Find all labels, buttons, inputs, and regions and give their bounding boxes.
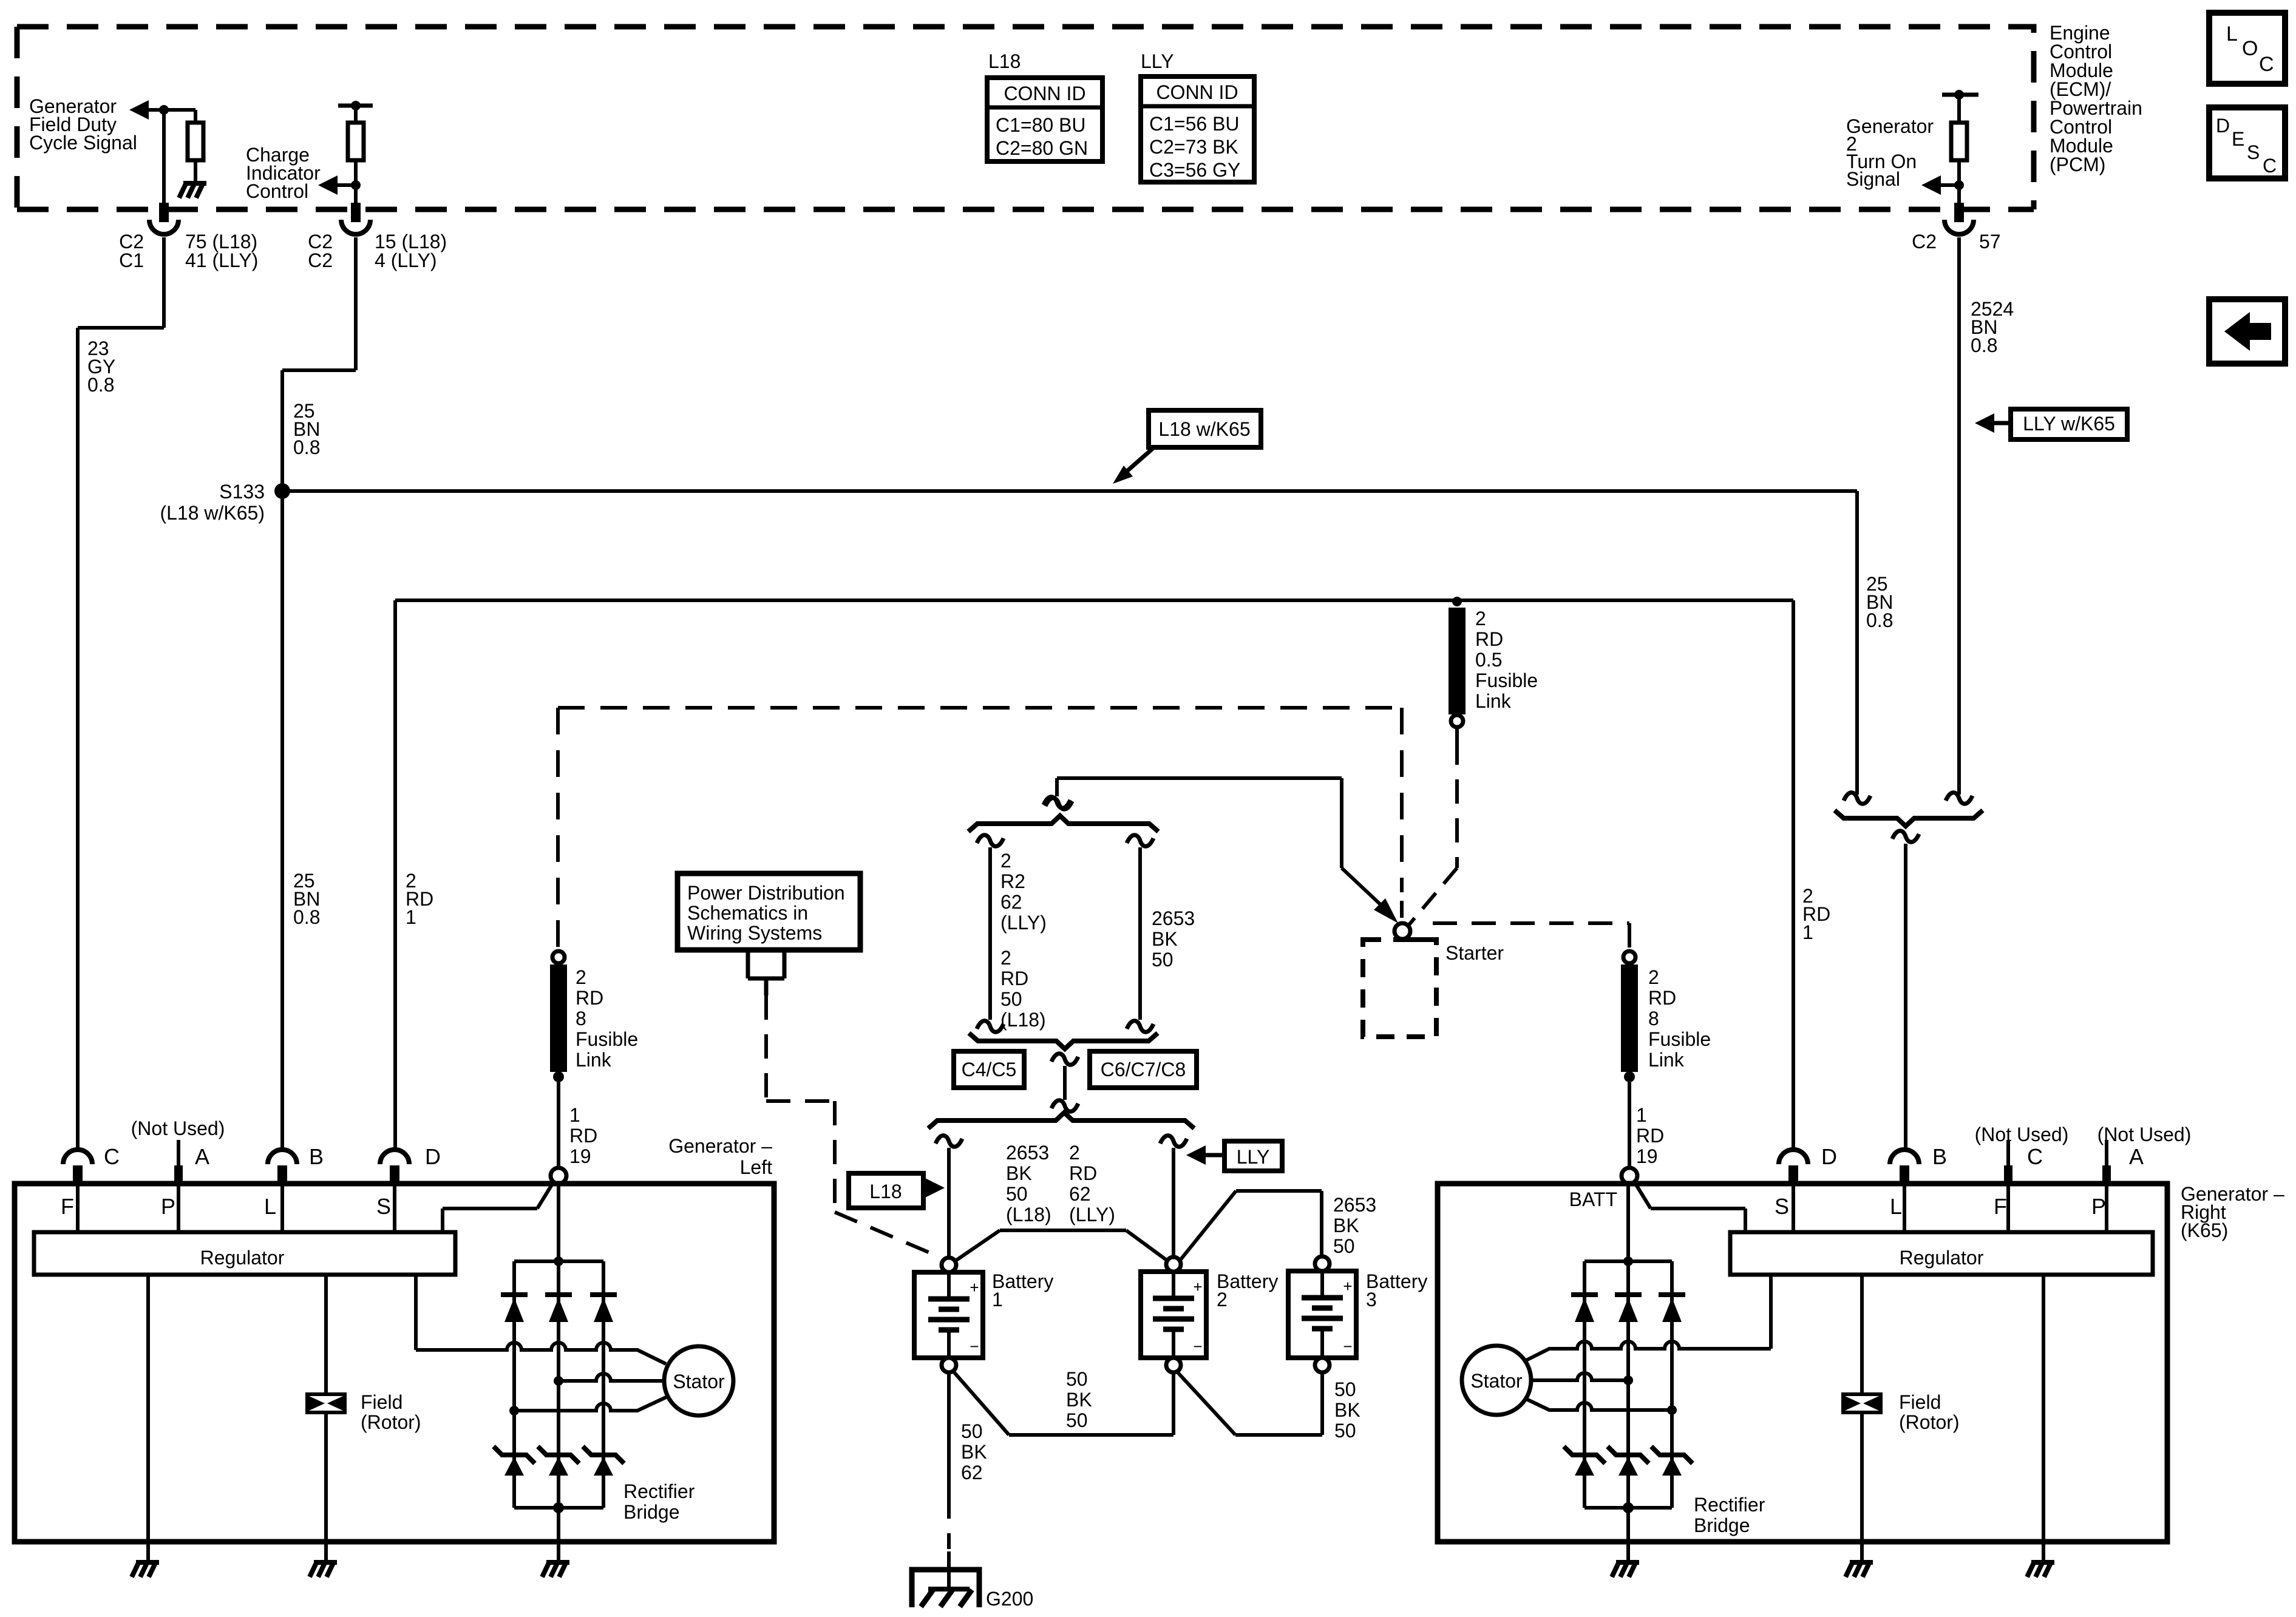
svg-text:2: 2 [576, 966, 586, 988]
svg-text:Bridge: Bridge [623, 1501, 680, 1523]
svg-text:L18 w/K65: L18 w/K65 [1158, 418, 1250, 440]
svg-text:BK: BK [1333, 1215, 1359, 1236]
svg-text:2653: 2653 [1006, 1142, 1049, 1164]
svg-text:C3=56 GY: C3=56 GY [1149, 159, 1240, 181]
svg-text:50: 50 [1006, 1183, 1028, 1205]
svg-text:Power Distribution: Power Distribution [687, 882, 845, 904]
svg-text:50: 50 [1334, 1378, 1356, 1400]
svg-text:50: 50 [1066, 1409, 1088, 1431]
svg-text:Starter: Starter [1445, 942, 1504, 964]
svg-text:F: F [61, 1194, 74, 1219]
svg-text:B: B [309, 1144, 324, 1169]
svg-text:Cycle Signal: Cycle Signal [29, 132, 137, 154]
svg-text:BK: BK [1066, 1389, 1092, 1411]
svg-text:50: 50 [1334, 1420, 1356, 1442]
svg-text:C2=73 BK: C2=73 BK [1149, 136, 1238, 158]
svg-text:R2: R2 [1000, 870, 1025, 892]
svg-text:C1=80 BU: C1=80 BU [996, 114, 1086, 136]
svg-text:19: 19 [569, 1145, 591, 1167]
svg-text:C: C [2027, 1144, 2043, 1169]
svg-text:62: 62 [1000, 891, 1022, 913]
svg-text:Fusible: Fusible [576, 1028, 638, 1050]
svg-text:D: D [1821, 1144, 1837, 1169]
svg-text:RD: RD [1000, 968, 1028, 989]
svg-text:C: C [2259, 53, 2274, 76]
svg-text:L: L [1890, 1194, 1902, 1219]
svg-text:(L18): (L18) [1006, 1204, 1051, 1225]
svg-text:A: A [2129, 1144, 2144, 1169]
svg-text:D: D [2216, 115, 2230, 137]
svg-text:0.5: 0.5 [1475, 649, 1502, 671]
svg-text:B: B [1932, 1144, 1947, 1169]
svg-text:50: 50 [1333, 1235, 1355, 1257]
svg-text:C4/C5: C4/C5 [962, 1059, 1017, 1080]
svg-text:57: 57 [1979, 231, 2001, 253]
svg-text:−: − [970, 1337, 979, 1355]
svg-text:Regulator: Regulator [1900, 1247, 1984, 1269]
svg-text:Schematics in: Schematics in [687, 902, 808, 924]
svg-text:−: − [1193, 1337, 1202, 1355]
svg-text:Generator: Generator [1846, 115, 1934, 137]
svg-text:(Not Used): (Not Used) [1975, 1124, 2069, 1145]
svg-text:2: 2 [1000, 850, 1011, 872]
svg-text:2: 2 [1648, 966, 1659, 988]
svg-text:4 (LLY): 4 (LLY) [375, 249, 437, 271]
svg-text:BATT: BATT [1569, 1188, 1617, 1210]
svg-text:CONN ID: CONN ID [1156, 81, 1238, 103]
svg-text:(K65): (K65) [2181, 1219, 2228, 1241]
svg-text:+: + [970, 1278, 979, 1297]
svg-text:2: 2 [1069, 1142, 1080, 1164]
svg-text:41 (LLY): 41 (LLY) [185, 249, 258, 271]
svg-text:(LLY): (LLY) [1000, 912, 1047, 934]
svg-text:RD: RD [1475, 628, 1503, 650]
svg-text:62: 62 [961, 1462, 983, 1483]
svg-text:LLY: LLY [1141, 50, 1174, 72]
svg-text:BK: BK [1006, 1162, 1032, 1184]
svg-text:C2: C2 [1912, 231, 1937, 253]
svg-text:C2: C2 [308, 249, 333, 271]
svg-text:Control: Control [246, 180, 308, 202]
svg-text:LLY: LLY [1237, 1146, 1270, 1168]
svg-text:(Not Used): (Not Used) [131, 1117, 225, 1139]
svg-text:BK: BK [961, 1441, 987, 1463]
svg-text:RD: RD [1648, 987, 1676, 1009]
svg-text:BK: BK [1334, 1399, 1360, 1421]
svg-text:Left: Left [740, 1156, 772, 1178]
svg-text:L: L [2226, 22, 2238, 46]
svg-text:2653: 2653 [1152, 907, 1195, 929]
svg-text:Bridge: Bridge [1694, 1514, 1750, 1536]
svg-text:(PCM): (PCM) [2050, 154, 2105, 175]
svg-text:Stator: Stator [673, 1371, 725, 1392]
svg-text:C1=56 BU: C1=56 BU [1149, 113, 1240, 135]
svg-text:(Rotor): (Rotor) [361, 1411, 421, 1433]
svg-text:50: 50 [1066, 1368, 1088, 1390]
svg-text:Link: Link [576, 1049, 612, 1071]
svg-text:(Rotor): (Rotor) [1899, 1411, 1960, 1433]
svg-text:1: 1 [992, 1289, 1003, 1310]
svg-text:0.8: 0.8 [293, 436, 320, 458]
svg-text:S: S [376, 1194, 391, 1219]
svg-text:E: E [2232, 128, 2244, 150]
svg-text:C: C [104, 1144, 120, 1169]
svg-text:62: 62 [1069, 1183, 1091, 1205]
svg-text:RD: RD [1069, 1162, 1097, 1184]
svg-text:Rectifier: Rectifier [623, 1480, 695, 1502]
svg-text:LLY w/K65: LLY w/K65 [2023, 413, 2115, 435]
svg-text:L18: L18 [869, 1181, 902, 1202]
svg-text:+: + [1193, 1278, 1202, 1296]
svg-text:2: 2 [1000, 947, 1011, 969]
svg-text:50: 50 [961, 1420, 983, 1442]
svg-text:1: 1 [1636, 1104, 1647, 1126]
svg-text:L18: L18 [988, 50, 1021, 72]
svg-text:G200: G200 [986, 1588, 1033, 1610]
svg-text:Field: Field [361, 1391, 402, 1413]
svg-text:2: 2 [1475, 608, 1486, 629]
svg-text:Generator –: Generator – [668, 1135, 772, 1157]
svg-text:+: + [1343, 1277, 1352, 1295]
svg-text:Wiring Systems: Wiring Systems [687, 922, 822, 944]
svg-text:2: 2 [1217, 1289, 1228, 1310]
svg-text:Regulator: Regulator [200, 1247, 285, 1269]
svg-text:(L18): (L18) [1000, 1009, 1046, 1031]
svg-text:(Not Used): (Not Used) [2097, 1124, 2192, 1145]
svg-text:D: D [425, 1144, 441, 1169]
svg-text:0.8: 0.8 [1866, 609, 1893, 631]
svg-text:RD: RD [569, 1125, 597, 1147]
svg-text:C: C [2263, 155, 2277, 177]
svg-text:1: 1 [569, 1104, 580, 1126]
svg-text:50: 50 [1152, 949, 1173, 971]
svg-text:RD: RD [576, 987, 603, 1009]
svg-text:Fusible: Fusible [1475, 670, 1538, 691]
svg-text:S133: S133 [219, 481, 265, 503]
svg-text:C1: C1 [119, 249, 144, 271]
svg-text:8: 8 [576, 1008, 586, 1029]
svg-text:19: 19 [1636, 1145, 1658, 1167]
svg-text:RD: RD [1636, 1125, 1664, 1147]
svg-text:A: A [195, 1144, 209, 1169]
svg-text:−: − [1343, 1337, 1352, 1355]
svg-text:50: 50 [1000, 988, 1022, 1010]
svg-text:O: O [2242, 37, 2258, 60]
svg-text:8: 8 [1648, 1008, 1659, 1029]
svg-text:0.8: 0.8 [293, 906, 320, 928]
svg-text:L: L [264, 1194, 276, 1219]
svg-text:S: S [1775, 1194, 1789, 1219]
svg-text:Signal: Signal [1846, 168, 1900, 190]
svg-text:2653: 2653 [1333, 1194, 1376, 1216]
svg-text:Rectifier: Rectifier [1694, 1494, 1765, 1516]
svg-text:(LLY): (LLY) [1069, 1204, 1115, 1225]
svg-text:Stator: Stator [1470, 1370, 1523, 1392]
svg-text:CONN ID: CONN ID [1004, 83, 1085, 104]
svg-text:0.8: 0.8 [1971, 334, 1997, 356]
svg-text:F: F [1994, 1194, 2007, 1219]
svg-text:C6/C7/C8: C6/C7/C8 [1101, 1059, 1186, 1080]
svg-text:3: 3 [1366, 1289, 1377, 1310]
svg-text:Field: Field [1899, 1391, 1941, 1413]
svg-text:1: 1 [406, 906, 416, 928]
svg-text:P: P [161, 1194, 175, 1219]
svg-text:(L18 w/K65): (L18 w/K65) [160, 502, 265, 524]
svg-text:0.8: 0.8 [87, 374, 114, 396]
svg-text:S: S [2247, 141, 2260, 163]
svg-text:C2=80 GN: C2=80 GN [996, 137, 1088, 159]
svg-text:Fusible: Fusible [1648, 1028, 1711, 1050]
svg-text:P: P [2091, 1194, 2106, 1219]
svg-text:Link: Link [1475, 690, 1512, 712]
svg-text:1: 1 [1802, 921, 1813, 943]
svg-text:Link: Link [1648, 1049, 1685, 1071]
svg-text:BK: BK [1152, 928, 1178, 950]
